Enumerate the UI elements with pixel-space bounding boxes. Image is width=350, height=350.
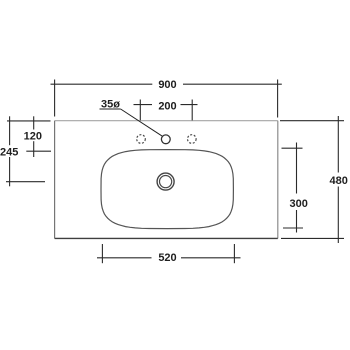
dim 520 left tick — [101, 244, 103, 263]
dim 520 line right segment — [181, 257, 241, 259]
dim 900 line left segment — [51, 83, 153, 85]
dim 300 top extension line — [282, 147, 303, 149]
svg-text:200: 200 — [158, 101, 176, 113]
dim 200 line left segment — [134, 104, 153, 106]
dim 480 line lower segment — [337, 187, 339, 244]
dim 480 bottom extension line — [281, 237, 344, 239]
washbasin outline right edge — [277, 121, 279, 239]
dim 120/245 shared top extension line — [7, 120, 51, 122]
dim 520 line left segment — [97, 257, 152, 259]
dim 300 bottom extension line — [283, 227, 303, 229]
faucet hole right (dashed) — [188, 135, 197, 144]
dim 300 line lower segment — [296, 210, 298, 233]
dim 900 right extension line — [277, 80, 279, 118]
washbasin outline bottom edge — [55, 237, 278, 239]
dim 900 line right segment — [183, 83, 282, 85]
dim 520 right tick — [233, 244, 235, 263]
dim 200 line right segment — [181, 104, 198, 106]
dim 300 line upper segment — [296, 143, 298, 194]
dim 120 middle extension line — [26, 150, 51, 152]
dim 245 line lower segment — [9, 157, 11, 186]
dim 480 top extension line — [280, 120, 344, 122]
label 35ø underline — [100, 108, 121, 110]
dim 120 line lower segment — [33, 141, 35, 157]
washbasin outline left edge — [54, 121, 56, 239]
svg-text:120: 120 — [24, 131, 42, 143]
dim 480 line upper segment — [337, 116, 339, 173]
dim 200 right extension line — [191, 100, 193, 121]
dim 245 bottom extension line — [6, 181, 45, 183]
basin bowl — [101, 150, 233, 229]
drain hole outer circle — [157, 173, 174, 190]
faucet hole left (dashed) — [137, 135, 146, 144]
svg-text:480: 480 — [330, 175, 348, 187]
dim 900 left extension line — [54, 80, 56, 117]
svg-text:245: 245 — [0, 146, 18, 158]
drain hole inner circle — [160, 176, 172, 188]
faucet hole center (solid) — [161, 135, 170, 144]
washbasin outline top edge — [55, 120, 278, 122]
svg-text:520: 520 — [158, 252, 176, 264]
svg-text:300: 300 — [290, 198, 308, 210]
dim 120 line upper segment — [33, 116, 35, 129]
dim 200 left extension line — [139, 100, 141, 121]
leader line from 35ø to center hole — [121, 109, 163, 136]
svg-text:900: 900 — [158, 79, 176, 91]
dim 245 line upper segment — [9, 116, 11, 145]
